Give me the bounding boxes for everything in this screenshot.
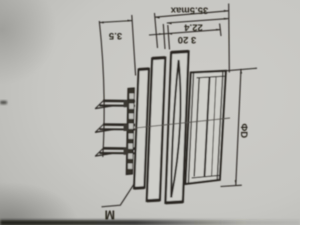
dimension line PhiD: [236, 69, 241, 185]
solder pin contact 2: [95, 125, 135, 133]
dimension line 22.4: [167, 19, 229, 23]
svg-text:ΦD: ΦD: [238, 123, 249, 138]
extension line top (shell diameter): [221, 68, 257, 71]
extension tick (3 right / 20 left): [168, 25, 170, 50]
insulator with solder cups (hatched column): [124, 88, 135, 175]
shell step line 2: [205, 77, 210, 176]
shell bottom inner edge: [192, 175, 219, 178]
svg-text:M: M: [105, 208, 115, 222]
shell inner right face line: [217, 71, 223, 180]
extension tick (3 left): [163, 24, 165, 49]
small mark at left edge: [0, 101, 7, 104]
solder pin contact 1: [95, 101, 135, 109]
shell step line 1: [194, 78, 199, 177]
extension tick (20 right): [220, 24, 221, 37]
svg-text:3 20: 3 20: [178, 34, 197, 45]
shell top inner edge: [197, 76, 225, 78]
mounting flange: [147, 58, 165, 201]
shell step line 3 (faint): [212, 77, 216, 176]
extension line (pin tip plane): [99, 21, 104, 157]
extension line (insulator face): [132, 15, 136, 76]
photo bottom edge shadow: [0, 0, 1, 1]
dimension line 3 and 20: [149, 30, 220, 35]
hex coupling nut: [165, 51, 188, 202]
extension line right (35.5max / 22.4): [228, 4, 231, 73]
extension line bottom (shell diameter): [221, 185, 242, 186]
shell cylinder outer: [185, 71, 225, 184]
hex nut facet arcs: [171, 60, 178, 198]
centerline: [136, 118, 230, 128]
dimension line 35.5max: [155, 11, 229, 17]
svg-text:35.5max: 35.5max: [170, 4, 208, 15]
extension line left (35.5max / 3): [155, 13, 158, 48]
svg-text:3.5: 3.5: [108, 30, 122, 41]
shadow top-left corner: [0, 0, 57, 85]
shell left rim inner line: [188, 73, 193, 184]
leader line for thread: [102, 181, 136, 207]
retaining ring (disc behind flange): [134, 69, 149, 188]
shadow bottom-left corner: [0, 182, 78, 240]
solder pin contact 3: [95, 148, 135, 156]
dimension line 3.5: [99, 21, 132, 23]
